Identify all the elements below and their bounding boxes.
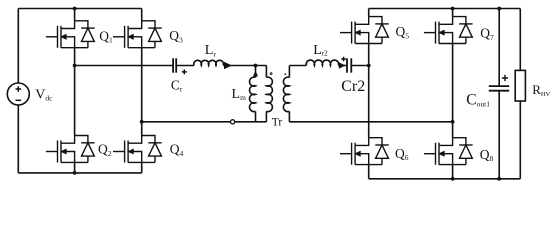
svg-text:Q4: Q4 xyxy=(170,142,184,158)
svg-text:Q7: Q7 xyxy=(480,26,494,42)
svg-text:Q2: Q2 xyxy=(98,142,112,158)
svg-text:Tr: Tr xyxy=(272,116,283,128)
svg-text:RHV: RHV xyxy=(532,82,550,98)
svg-text:Q8: Q8 xyxy=(480,147,494,163)
svg-text:Q3: Q3 xyxy=(169,28,183,44)
svg-text:Q6: Q6 xyxy=(395,146,409,162)
svg-text:Lm: Lm xyxy=(232,87,247,102)
svg-text:Cout1: Cout1 xyxy=(466,91,490,108)
svg-text:Lr2: Lr2 xyxy=(313,43,328,58)
svg-text:Cr2: Cr2 xyxy=(341,78,365,95)
svg-text:Q5: Q5 xyxy=(396,24,410,40)
svg-text:Vdc: Vdc xyxy=(35,87,53,102)
svg-text:Lr: Lr xyxy=(205,43,217,58)
svg-text:Q1: Q1 xyxy=(99,28,113,44)
svg-text:Cr: Cr xyxy=(171,77,183,93)
